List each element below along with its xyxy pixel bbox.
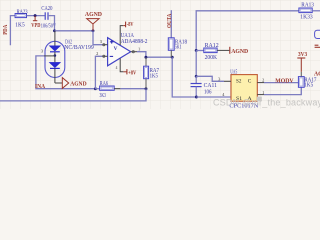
wire DA2 pin3 to INA rail bbox=[36, 56, 95, 89]
svg-text:VPD: VPD bbox=[31, 22, 40, 29]
svg-text:4: 4 bbox=[116, 66, 118, 70]
wire UA5 pin1 to RA17 bottom bbox=[264, 87, 301, 94]
resistor RA6 bbox=[95, 81, 120, 99]
wire PDA to RA23 bbox=[10, 16, 15, 46]
svg-text:CSDN @mr: CSDN @mr bbox=[213, 98, 262, 108]
wire down to CA11 junction bbox=[195, 51, 197, 77]
svg-text:1K5: 1K5 bbox=[150, 73, 158, 79]
power port -8V bbox=[123, 21, 133, 28]
svg-text:V: V bbox=[114, 46, 118, 52]
pin V- (top) bbox=[120, 26, 123, 45]
svg-text:200K: 200K bbox=[205, 55, 218, 61]
svg-text:C: C bbox=[248, 79, 252, 85]
wire CA11 junction to UA5 pin3 bbox=[196, 76, 224, 81]
svg-text:CA20: CA20 bbox=[41, 6, 52, 12]
component fragment (right edge) bbox=[315, 30, 320, 38]
svg-text:3K3: 3K3 bbox=[100, 93, 106, 99]
power port VPD (bar down) bbox=[31, 16, 40, 29]
svg-text:CA11: CA11 bbox=[204, 83, 217, 89]
wire RA18 down to bottom-right rail bbox=[172, 57, 196, 97]
power port +8V bbox=[123, 69, 136, 76]
pin V+ (bottom) bbox=[120, 58, 123, 71]
svg-text:RA6: RA6 bbox=[100, 81, 109, 87]
svg-text:1K5: 1K5 bbox=[15, 22, 24, 28]
wire to op-amp +IN bbox=[93, 31, 103, 45]
svg-text:INA: INA bbox=[35, 83, 45, 90]
resistor RA17 bbox=[298, 72, 316, 89]
svg-text:-8V: -8V bbox=[127, 21, 134, 28]
svg-text:AGND: AGND bbox=[85, 11, 102, 18]
power bar fragment (right edge) bbox=[315, 44, 319, 46]
resistor RA7 bbox=[144, 57, 159, 88]
wire output to RA18 junction bbox=[137, 52, 172, 58]
svg-text:OUTA: OUTA bbox=[166, 13, 173, 28]
svg-text:106: 106 bbox=[204, 89, 212, 95]
junction node RA18 bottom bbox=[171, 56, 174, 59]
svg-text:AGND: AGND bbox=[314, 70, 320, 77]
capacitor CA20 bbox=[41, 6, 57, 29]
wire RA23 to CA20 bbox=[27, 15, 45, 17]
junction node AGND bbox=[92, 29, 95, 32]
resistor RA13 (top right) bbox=[299, 3, 320, 21]
junction node CA11 bottom bbox=[195, 96, 198, 99]
svg-text:RA13: RA13 bbox=[301, 3, 314, 9]
op-amp UA1A ADA4898-2 bbox=[96, 26, 147, 72]
wire top-right rail bbox=[196, 11, 299, 51]
wire UA5 pin2 to RA17 (net MODV) bbox=[264, 82, 298, 84]
resistor RA18 bbox=[168, 10, 187, 57]
svg-text:RA23: RA23 bbox=[17, 9, 28, 15]
svg-text:3V3: 3V3 bbox=[298, 51, 308, 58]
svg-text:NC/BAV199: NC/BAV199 bbox=[64, 45, 94, 51]
wire bottom-left rail bbox=[0, 89, 146, 101]
svg-text:UA5: UA5 bbox=[230, 70, 237, 76]
junction node RA7 bottom bbox=[145, 87, 148, 90]
svg-text:PDA: PDA bbox=[2, 25, 9, 35]
junction node output/RA7 bbox=[144, 56, 147, 59]
svg-text:S2: S2 bbox=[236, 79, 242, 85]
power port AGND (triangle down) bbox=[85, 11, 102, 31]
wire CA20 to level-2 bbox=[48, 16, 55, 31]
svg-text:AGND: AGND bbox=[231, 48, 248, 55]
svg-text:AGND: AGND bbox=[70, 81, 87, 88]
svg-text:1K33: 1K33 bbox=[300, 15, 312, 21]
wire to UA5 pin4 bbox=[196, 96, 231, 98]
junction node CA11 top bbox=[195, 75, 198, 78]
svg-text:+8V: +8V bbox=[128, 69, 136, 76]
svg-text:1: 1 bbox=[138, 46, 140, 51]
junction node DA2 top bbox=[53, 29, 56, 32]
svg-text:ADA4898-2: ADA4898-2 bbox=[121, 39, 148, 45]
svg-text:RA12: RA12 bbox=[205, 43, 219, 49]
diode DA2 NC/BAV199 (dual stadium) bbox=[41, 31, 94, 83]
resistor RA23 bbox=[15, 9, 28, 28]
power port 3V3 (bar up) bbox=[297, 51, 307, 72]
capacitor CA11 bbox=[191, 76, 217, 97]
wire RA6 to RA7 junction bbox=[120, 88, 146, 90]
svg-text:5K1: 5K1 bbox=[175, 44, 182, 50]
wire -IN vertical bbox=[95, 56, 103, 88]
resistor RA12 bbox=[196, 43, 229, 61]
power port AGND (DA2 bottom, triangle right) bbox=[55, 78, 87, 89]
svg-text:MODV: MODV bbox=[275, 77, 294, 84]
svg-text:2: 2 bbox=[96, 51, 98, 56]
opto UA5 CPC1017N bbox=[218, 70, 264, 110]
svg-text:1K5: 1K5 bbox=[304, 82, 313, 88]
junction node RA12 left bbox=[195, 49, 198, 52]
junction node -IN bbox=[94, 87, 97, 90]
svg-text:UA1A: UA1A bbox=[121, 33, 135, 39]
svg-text:_the_backway: _the_backway bbox=[261, 98, 320, 108]
power port AGND (bar right, after RA12) bbox=[230, 47, 249, 55]
svg-text:2: 2 bbox=[262, 77, 264, 82]
junction node VPD bbox=[34, 14, 37, 17]
wire level-2 bbox=[55, 30, 94, 32]
